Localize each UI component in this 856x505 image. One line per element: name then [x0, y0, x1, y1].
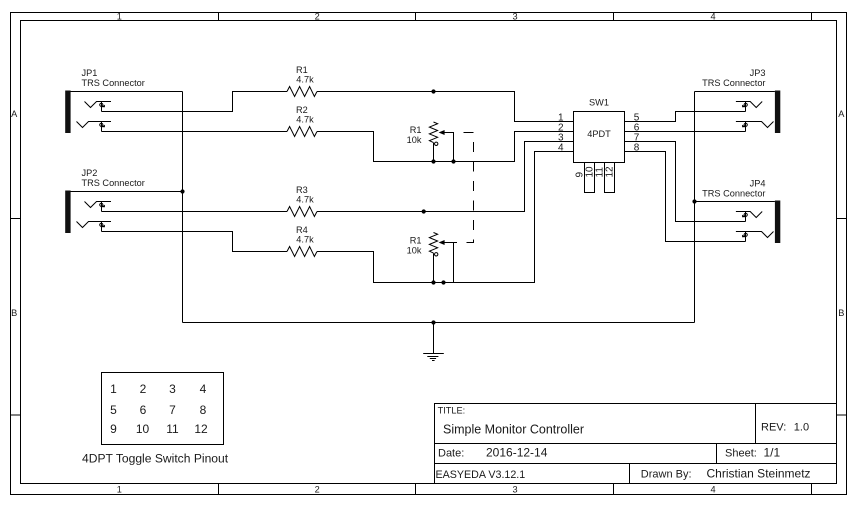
- wire sleeve bus vertical (JP3/JP4 to ground rail): [694, 92, 696, 323]
- svg-text:8: 8: [200, 403, 207, 417]
- svg-text:B: B: [838, 308, 844, 318]
- svg-text:1: 1: [110, 382, 117, 396]
- connector JP3 (TRS Connector): [702, 68, 780, 133]
- node pot2 top junction: [422, 209, 426, 213]
- resistor R1 4.7k: [287, 65, 317, 97]
- svg-text:R1: R1: [296, 65, 308, 75]
- node junction JP4 sleeve: [692, 199, 696, 203]
- svg-text:Date:: Date:: [438, 448, 464, 460]
- connector JP2 (TRS Connector): [65, 168, 145, 233]
- svg-text:3: 3: [169, 382, 176, 396]
- title block: [435, 404, 837, 484]
- resistor R2 4.7k: [287, 105, 317, 137]
- wire SW1 pin6 to JP3 ring: [625, 131, 746, 133]
- wire R3 to pot2 top to SW1 pin3: [317, 142, 574, 212]
- wire JP2 sleeve line: [71, 191, 183, 193]
- svg-text:4: 4: [710, 11, 715, 21]
- node pot1 top junction: [431, 89, 435, 93]
- ground: [423, 320, 444, 360]
- svg-text:3: 3: [513, 485, 518, 495]
- svg-text:12: 12: [604, 166, 615, 178]
- svg-text:4.7k: 4.7k: [296, 235, 314, 245]
- svg-text:TRS Connector: TRS Connector: [702, 78, 765, 88]
- svg-text:5: 5: [110, 403, 117, 417]
- svg-text:1: 1: [117, 485, 122, 495]
- wire R2 to pot1 bottom rail to SW1 pin2: [317, 132, 574, 162]
- wire JP4 sleeve line: [695, 201, 775, 203]
- wire sleeve bus vertical (JP1/JP2 to ground rail): [182, 92, 184, 323]
- svg-text:SW1: SW1: [589, 98, 609, 108]
- svg-text:B: B: [11, 308, 17, 318]
- svg-text:R4: R4: [296, 225, 308, 235]
- potentiometer R1 10k (upper): [407, 122, 454, 162]
- svg-text:2: 2: [315, 485, 320, 495]
- wire R4 to pot2 bottom rail to SW1 pin4: [317, 152, 574, 283]
- wire JP2 tip to R3: [102, 211, 288, 213]
- dashed gang link between pot wipers: [454, 133, 474, 243]
- svg-text:JP3: JP3: [750, 68, 766, 78]
- svg-text:12: 12: [194, 422, 208, 436]
- svg-text:4DPT Toggle Switch Pinout: 4DPT Toggle Switch Pinout: [82, 452, 229, 466]
- svg-text:1/1: 1/1: [764, 446, 781, 460]
- svg-text:10k: 10k: [407, 246, 422, 256]
- node pot1 bottom junctions: [431, 159, 435, 163]
- svg-text:Sheet:: Sheet:: [725, 448, 757, 460]
- svg-text:4PDT: 4PDT: [587, 129, 611, 139]
- wire JP2 ring to R4: [102, 232, 288, 252]
- svg-text:10k: 10k: [407, 135, 422, 145]
- svg-text:4.7k: 4.7k: [296, 115, 314, 125]
- svg-text:R2: R2: [296, 105, 308, 115]
- svg-text:2016-12-14: 2016-12-14: [486, 446, 548, 460]
- svg-text:R1: R1: [410, 236, 422, 246]
- svg-text:11: 11: [166, 422, 179, 436]
- svg-text:JP1: JP1: [82, 68, 98, 78]
- resistor R3 4.7k: [287, 185, 317, 217]
- wire JP1 ring to R2: [102, 131, 288, 133]
- svg-text:REV:: REV:: [761, 422, 786, 434]
- node pot2 bottom junctions: [431, 280, 435, 284]
- 4DPT toggle switch pinout table: [102, 373, 224, 445]
- svg-text:R3: R3: [296, 185, 308, 195]
- connector JP4 (TRS Connector): [702, 179, 780, 244]
- svg-text:4.7k: 4.7k: [296, 75, 314, 85]
- svg-text:TRS Connector: TRS Connector: [82, 78, 145, 88]
- node junction JP2 sleeve: [180, 189, 184, 193]
- wire JP1 sleeve line: [71, 91, 183, 93]
- svg-text:TRS Connector: TRS Connector: [82, 178, 145, 188]
- wire JP3 sleeve line: [695, 91, 775, 93]
- svg-text:JP4: JP4: [750, 179, 766, 189]
- svg-text:A: A: [11, 109, 18, 119]
- svg-text:4.7k: 4.7k: [296, 195, 314, 205]
- svg-text:2: 2: [140, 382, 147, 396]
- wire SW1 pin8 to JP4 ring: [625, 152, 746, 242]
- switch SW1 4PDT: [574, 98, 625, 163]
- SW1 pins 11-12 jumper: [605, 163, 615, 193]
- SW1 pins 9-10 jumper: [585, 163, 595, 193]
- svg-text:Drawn By:: Drawn By:: [641, 469, 692, 481]
- svg-text:1: 1: [117, 11, 122, 21]
- wire SW1 pin7 to JP4 tip: [625, 142, 746, 222]
- svg-text:2: 2: [315, 11, 320, 21]
- svg-text:1.0: 1.0: [794, 422, 809, 434]
- svg-text:7: 7: [169, 403, 176, 417]
- wire SW1 pin5 to JP3 tip: [625, 112, 746, 122]
- svg-text:3: 3: [513, 11, 518, 21]
- svg-text:9: 9: [110, 422, 117, 436]
- connector JP1 (TRS Connector): [65, 68, 145, 133]
- resistor R4 4.7k: [287, 225, 317, 257]
- svg-text:4: 4: [200, 382, 207, 396]
- svg-text:JP2: JP2: [82, 168, 98, 178]
- svg-text:Christian Steinmetz: Christian Steinmetz: [707, 467, 811, 481]
- svg-text:TITLE:: TITLE:: [438, 406, 466, 416]
- svg-text:A: A: [838, 109, 845, 119]
- wire ground rail: [183, 322, 695, 324]
- svg-text:EASYEDA V3.12.1: EASYEDA V3.12.1: [436, 469, 526, 481]
- svg-text:6: 6: [140, 403, 147, 417]
- svg-text:Simple Monitor Controller: Simple Monitor Controller: [443, 423, 584, 437]
- svg-text:4: 4: [710, 485, 715, 495]
- svg-text:R1: R1: [410, 125, 422, 135]
- svg-text:TRS Connector: TRS Connector: [702, 189, 765, 199]
- potentiometer R1 10k (lower): [407, 233, 454, 283]
- svg-text:10: 10: [136, 422, 150, 436]
- wire JP1 tip to R1 to SW1 pin1: [102, 92, 288, 112]
